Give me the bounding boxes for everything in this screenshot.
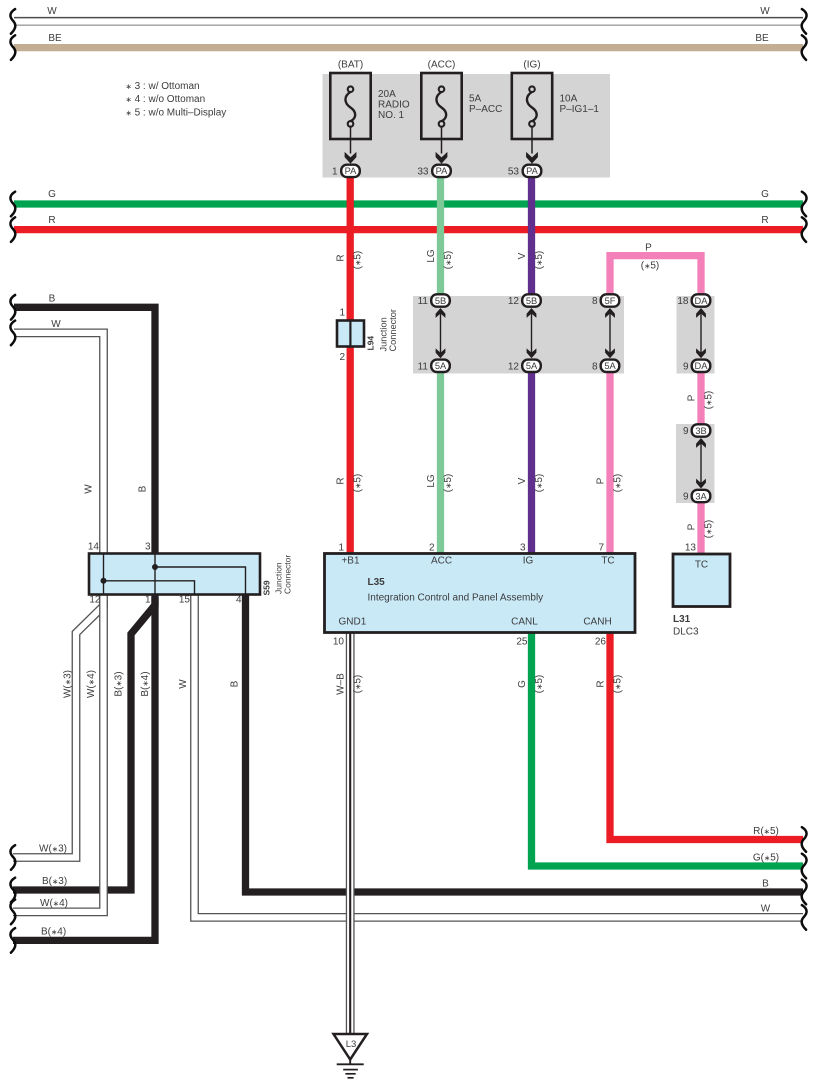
connector 5B/5A (IG column) pins 12 [531, 311, 533, 355]
wire P (TC column lower) [606, 364, 613, 555]
svg-text:S59: S59 [262, 580, 272, 595]
svg-text:5A: 5A [435, 361, 447, 371]
svg-text:R: R [336, 477, 347, 484]
wire V (IG column upper) [528, 176, 535, 302]
svg-text:L31: L31 [673, 614, 691, 625]
svg-text:4: 4 [236, 595, 242, 606]
svg-text:7: 7 [598, 543, 604, 554]
svg-text:8: 8 [592, 296, 598, 307]
wire P (TC jumper 5F to DA) [610, 256, 701, 302]
junction connector L94 [337, 321, 364, 347]
svg-text:PA: PA [345, 166, 358, 176]
svg-text:B: B [762, 879, 769, 890]
wire G CANL (to right) [532, 631, 804, 866]
svg-text:Integration Control and Panel: Integration Control and Panel Assembly [368, 593, 544, 604]
svg-text:DA: DA [695, 296, 709, 306]
svg-text:(∗5): (∗5) [443, 474, 454, 493]
break symbol left G bus [10, 192, 15, 217]
svg-text:W: W [760, 6, 770, 17]
svg-text:(∗5): (∗5) [353, 675, 364, 694]
svg-text:25: 25 [516, 637, 528, 648]
svg-text:(∗5): (∗5) [534, 675, 545, 694]
svg-text:15: 15 [179, 595, 191, 606]
svg-text:10A: 10A [560, 94, 578, 105]
svg-text:3: 3 [520, 543, 526, 554]
svg-text:∗ 5 : w/o Multi–Display: ∗ 5 : w/o Multi–Display [126, 107, 227, 118]
svg-text:3B: 3B [695, 426, 706, 436]
svg-text:(∗5): (∗5) [704, 520, 715, 539]
svg-text:(BAT): (BAT) [338, 60, 363, 71]
svg-text:1: 1 [338, 543, 344, 554]
svg-text:(∗5): (∗5) [613, 474, 624, 493]
svg-text:B: B [230, 680, 241, 687]
svg-text:12: 12 [508, 296, 520, 307]
break symbol left R bus [10, 217, 15, 242]
svg-text:P: P [687, 523, 698, 530]
svg-text:P: P [596, 477, 607, 484]
wire LG (ACC column upper) [437, 176, 444, 302]
svg-text:G: G [517, 680, 528, 688]
svg-text:V: V [517, 252, 528, 259]
break symbol right R(*5) [802, 827, 807, 852]
svg-text:18: 18 [677, 296, 689, 307]
svg-text:5A: 5A [526, 361, 538, 371]
svg-text:W: W [84, 484, 95, 494]
wire R bus [14, 226, 803, 233]
svg-text:5A: 5A [604, 361, 616, 371]
wire B from S59 pin 4 (to right) [246, 593, 804, 892]
break symbol right BE bus [802, 35, 807, 60]
fuse block gray panel [323, 74, 611, 178]
svg-text:12: 12 [508, 361, 520, 372]
wire V (IG column lower) [528, 364, 535, 555]
wire W (left feed, to S59 pin 14) [14, 333, 104, 555]
svg-text:B: B [49, 294, 56, 305]
svg-text:W: W [178, 679, 189, 689]
svg-text:ACC: ACC [431, 556, 452, 567]
wire B(*4) from S59 pin 1 [13, 593, 155, 940]
svg-text:PA: PA [436, 166, 449, 176]
svg-text:R(∗5): R(∗5) [753, 826, 779, 837]
wire B (left feed, to S59 pin 3) [14, 307, 155, 555]
break symbol left W(*3) [10, 845, 15, 870]
svg-text:11: 11 [418, 296, 429, 307]
svg-text:3: 3 [145, 542, 151, 553]
ECU L35 Integration Control and Panel Assembly [325, 554, 636, 633]
wire W(*4) from S59 pin 12 [13, 593, 104, 912]
break symbol right W [802, 905, 807, 930]
break symbol left B(*4) [10, 928, 15, 953]
svg-text:LG: LG [426, 249, 437, 263]
svg-text:1: 1 [339, 308, 345, 319]
svg-text:W(∗4): W(∗4) [86, 670, 97, 698]
svg-text:W: W [47, 6, 57, 17]
svg-text:W–B: W–B [336, 673, 347, 695]
svg-text:3A: 3A [695, 491, 707, 501]
junction block gray panel (5B/5A/5F) [413, 296, 624, 374]
svg-text:NO. 1: NO. 1 [378, 110, 405, 121]
svg-text:(∗5): (∗5) [613, 675, 624, 694]
svg-text:14: 14 [88, 542, 100, 553]
svg-text:PA: PA [526, 166, 539, 176]
svg-text:∗ 4 : w/o Ottoman: ∗ 4 : w/o Ottoman [126, 94, 206, 105]
connector 5F/5A (TC column) pins 8 [609, 311, 611, 355]
ground L3 [334, 1034, 368, 1060]
svg-text:W(∗4): W(∗4) [40, 898, 68, 909]
wire R CANH (to right) [610, 631, 803, 840]
connector DA/DA pins 18/9 [700, 311, 702, 355]
break symbol right G(*5) [802, 854, 807, 879]
svg-text:(∗5): (∗5) [353, 251, 364, 270]
svg-text:20A: 20A [378, 89, 396, 100]
break symbol right G bus [802, 192, 807, 217]
svg-text:W(∗3): W(∗3) [63, 670, 74, 698]
svg-text:R: R [761, 215, 768, 226]
svg-text:+B1: +B1 [341, 556, 360, 567]
svg-text:5B: 5B [526, 296, 537, 306]
svg-text:L35: L35 [368, 577, 386, 588]
break symbol left BE bus [10, 35, 15, 60]
svg-text:G: G [761, 189, 769, 200]
svg-text:2: 2 [339, 352, 345, 363]
svg-text:P–IG1–1: P–IG1–1 [560, 104, 600, 115]
svg-text:W: W [51, 319, 61, 330]
svg-text:2: 2 [429, 543, 435, 554]
svg-text:33: 33 [417, 166, 429, 177]
wire W from S59 pin 15 (to right) [195, 593, 804, 917]
break symbol left W bus [10, 9, 15, 34]
svg-text:P–ACC: P–ACC [469, 104, 502, 115]
svg-text:9: 9 [683, 426, 689, 437]
svg-text:LG: LG [426, 474, 437, 488]
svg-text:DLC3: DLC3 [673, 627, 699, 638]
svg-text:Connector: Connector [388, 309, 398, 351]
svg-text:B(∗3): B(∗3) [114, 671, 125, 696]
svg-text:RADIO: RADIO [378, 100, 410, 111]
wire BE bus [14, 44, 803, 51]
wire P (DA to 3B) [697, 364, 704, 432]
svg-text:IG: IG [523, 556, 534, 567]
wire B(*3) branch from S59 pin 1 [13, 597, 155, 890]
svg-text:10: 10 [333, 637, 345, 648]
wire W bus (top) [14, 17, 803, 19]
svg-text:5A: 5A [469, 94, 482, 105]
junction block gray panel (DA) [677, 296, 715, 374]
svg-text:DA: DA [695, 361, 709, 371]
svg-text:11: 11 [418, 361, 429, 372]
svg-text:(∗5): (∗5) [443, 251, 454, 270]
svg-text:P: P [645, 243, 652, 254]
svg-text:R: R [48, 215, 55, 226]
svg-text:(∗5): (∗5) [534, 251, 545, 270]
svg-text:G: G [48, 189, 56, 200]
svg-text:L3: L3 [346, 1039, 357, 1050]
break symbol right W bus [802, 9, 807, 34]
svg-text:(ACC): (ACC) [428, 60, 456, 71]
svg-text:1: 1 [145, 595, 151, 606]
junction connector S59 [89, 554, 260, 595]
svg-text:(∗5): (∗5) [534, 474, 545, 493]
svg-text:BE: BE [48, 33, 62, 44]
svg-text:B: B [138, 485, 149, 492]
svg-text:R: R [336, 254, 347, 261]
svg-text:12: 12 [89, 595, 101, 606]
svg-text:∗ 3 : w/ Ottoman: ∗ 3 : w/ Ottoman [126, 81, 200, 92]
svg-text:53: 53 [508, 166, 520, 177]
connector L31 DLC3 [673, 554, 730, 607]
svg-text:5B: 5B [435, 296, 446, 306]
svg-text:TC: TC [695, 560, 708, 571]
svg-text:W: W [761, 904, 771, 915]
wire W-B (GND1 to ground L3) [346, 631, 355, 1034]
wire LG (ACC column lower) [437, 364, 444, 555]
break symbol left B(*3) [10, 878, 15, 903]
svg-text:1: 1 [332, 166, 338, 177]
svg-text:CANH: CANH [583, 617, 611, 628]
break symbol left W(*4) [10, 900, 15, 925]
connector 5B/5A (ACC column) pins 11 [440, 311, 442, 355]
svg-text:BE: BE [755, 33, 769, 44]
break symbol left B feed [10, 295, 15, 320]
svg-text:GND1: GND1 [339, 617, 367, 628]
wire P (3A to L31) [697, 495, 704, 556]
svg-text:26: 26 [595, 637, 607, 648]
svg-text:W(∗3): W(∗3) [39, 844, 67, 855]
svg-text:Junction: Junction [379, 317, 389, 351]
svg-text:(∗5): (∗5) [641, 261, 660, 272]
svg-text:CANL: CANL [511, 617, 538, 628]
svg-text:B(∗3): B(∗3) [42, 876, 67, 887]
svg-text:Connector: Connector [283, 555, 293, 594]
svg-text:13: 13 [685, 543, 697, 554]
wire G bus [14, 200, 803, 207]
svg-text:5F: 5F [605, 296, 616, 306]
svg-text:B(∗4): B(∗4) [41, 927, 66, 938]
svg-text:R: R [596, 680, 607, 687]
svg-text:9: 9 [683, 361, 689, 372]
svg-text:TC: TC [601, 556, 614, 567]
break symbol right B [802, 880, 807, 905]
wire W(*3) branch from S59 pin 12 [13, 600, 104, 858]
svg-text:P: P [687, 394, 698, 401]
svg-text:L94: L94 [366, 336, 376, 351]
wire R (+B1 column) [347, 176, 354, 555]
svg-text:(IG): (IG) [523, 60, 540, 71]
svg-text:G(∗5): G(∗5) [753, 853, 779, 864]
svg-text:V: V [517, 477, 528, 484]
break symbol right R bus [802, 217, 807, 242]
svg-text:(∗5): (∗5) [353, 474, 364, 493]
svg-text:(∗5): (∗5) [704, 391, 715, 410]
connector 3B/3A pins 9/9 [700, 441, 702, 486]
junction block gray panel (3B/3A) [676, 424, 715, 503]
svg-text:9: 9 [683, 492, 689, 503]
svg-text:8: 8 [592, 361, 598, 372]
svg-text:B(∗4): B(∗4) [140, 671, 151, 696]
break symbol left W feed [10, 321, 15, 346]
